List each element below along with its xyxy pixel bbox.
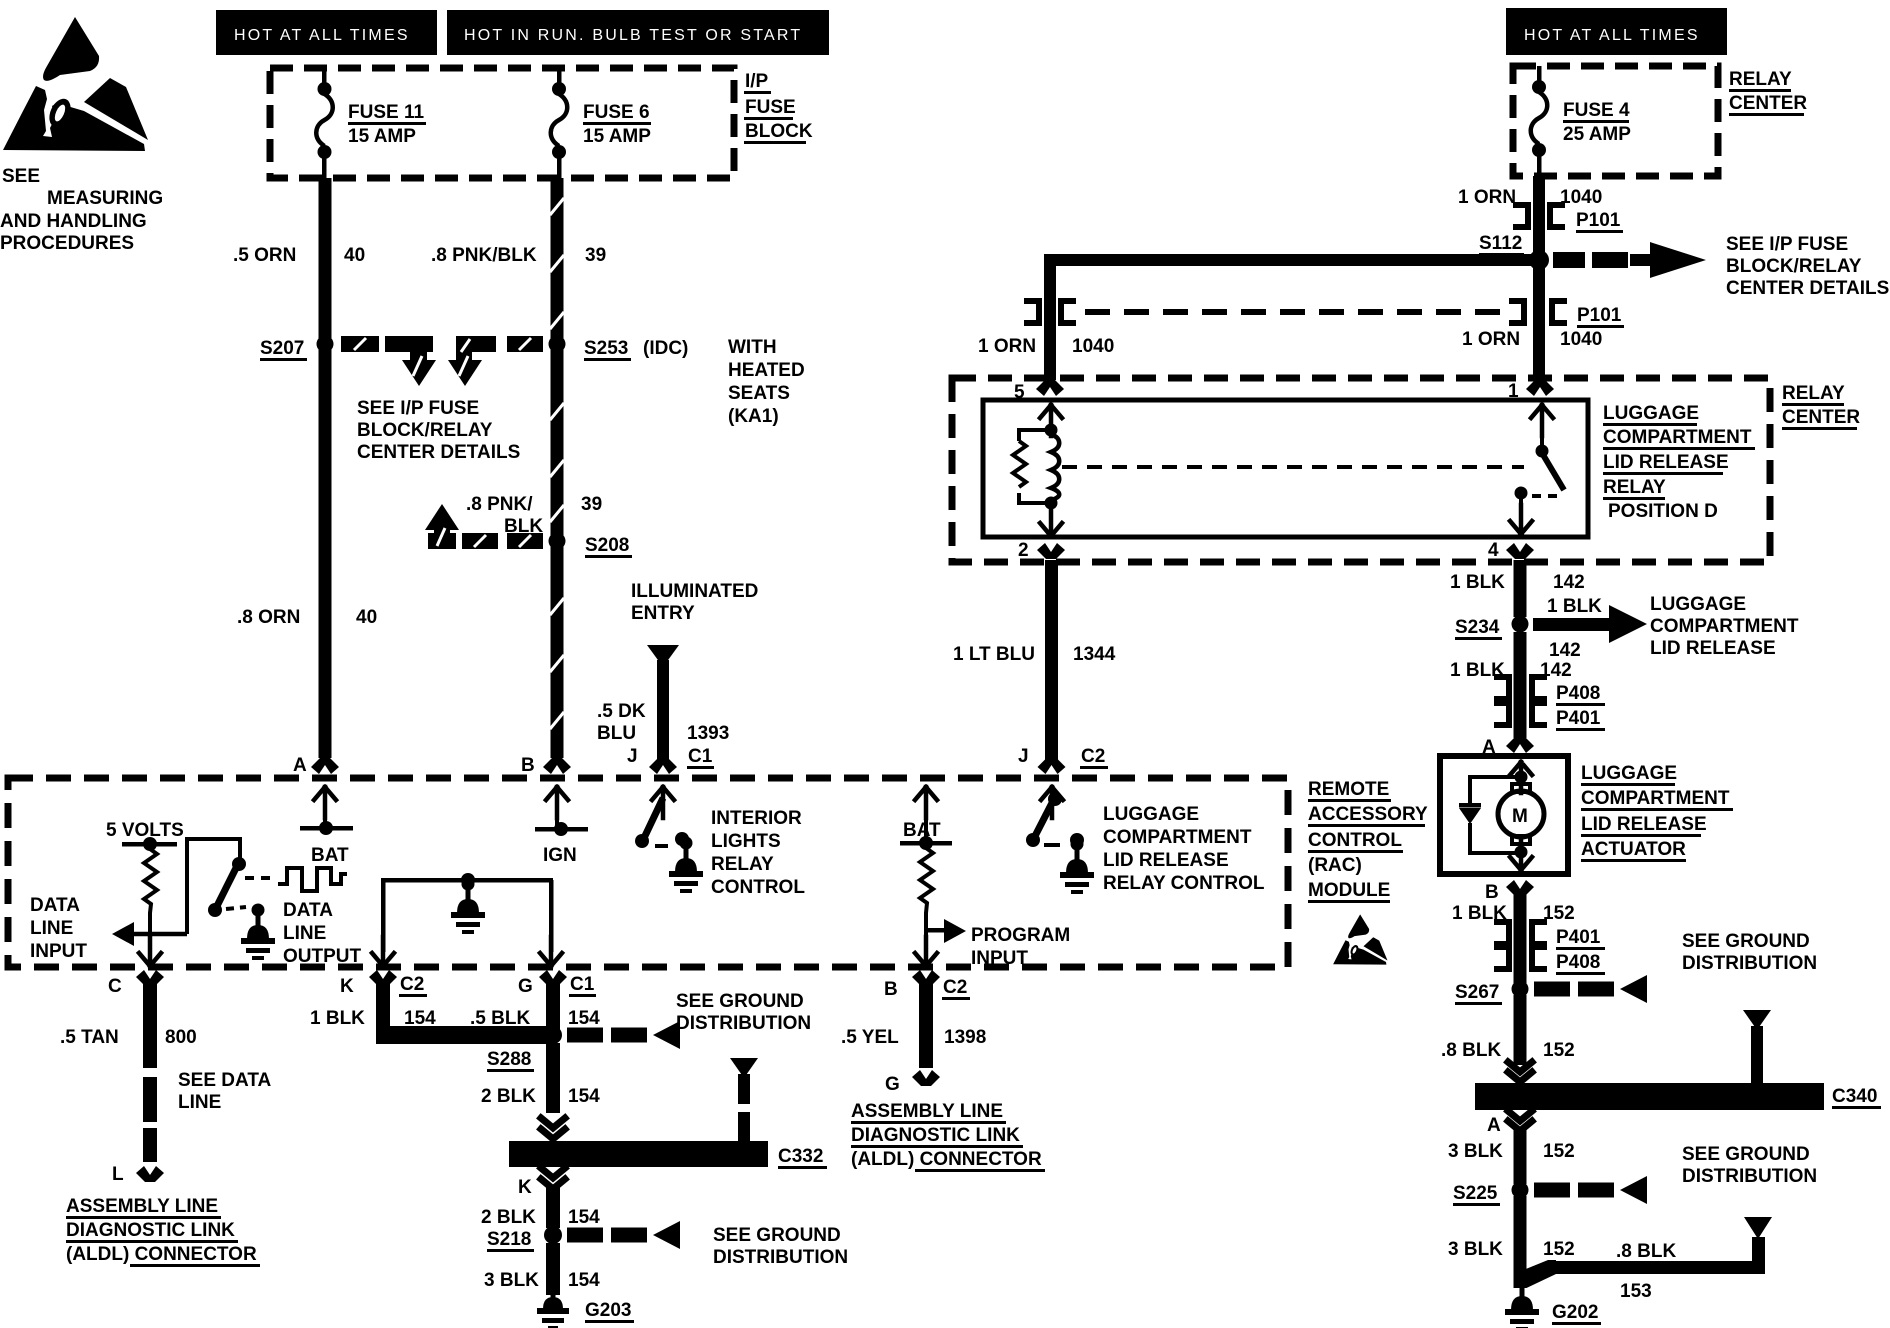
wire: .5 TAN 800 to ALDL pin L <box>143 982 157 1068</box>
svg-text:AND HANDLING: AND HANDLING <box>0 211 147 232</box>
svg-text:2: 2 <box>1018 540 1029 561</box>
svg-text:COMPARTMENT: COMPARTMENT <box>1650 616 1799 637</box>
svg-text:4: 4 <box>1488 540 1499 561</box>
label: I/P FUSE BLOCK <box>744 71 813 144</box>
svg-text:C1: C1 <box>570 974 595 995</box>
arrow: S267 to ground distribution <box>1534 975 1647 1003</box>
svg-text:.8 BLK: .8 BLK <box>1441 1040 1501 1061</box>
svg-text:G: G <box>885 1074 900 1095</box>
splice S253 <box>549 336 566 353</box>
svg-text:REMOTE: REMOTE <box>1308 779 1389 800</box>
svg-text:154: 154 <box>568 1270 600 1291</box>
svg-text:3 BLK: 3 BLK <box>1448 1239 1503 1260</box>
wire: .8 BLK 153 branch to trunk ground <box>1514 1260 1557 1288</box>
svg-text:5: 5 <box>1014 382 1025 403</box>
svg-text:39: 39 <box>585 245 606 266</box>
svg-text:S288: S288 <box>487 1049 531 1070</box>
wire: circuit 1040 from FUSE 4 to relay pin 1 <box>1533 176 1545 380</box>
svg-text:154: 154 <box>568 1086 600 1107</box>
svg-text:DATA: DATA <box>30 895 80 916</box>
svg-text:B: B <box>884 979 898 1000</box>
svg-text:SEE GROUND: SEE GROUND <box>676 991 804 1012</box>
splice S208 <box>549 533 566 550</box>
svg-text:154: 154 <box>568 1008 600 1029</box>
svg-text:152: 152 <box>1543 1141 1575 1162</box>
connector C340 (bulkhead bar) <box>1475 1083 1824 1110</box>
note: LUGGAGE COMPARTMENT LID RELEASE <box>1650 594 1799 659</box>
connector C332 (bar) <box>509 1141 768 1167</box>
svg-text:25 AMP: 25 AMP <box>1563 124 1631 145</box>
svg-text:C340: C340 <box>1832 1086 1877 1107</box>
svg-text:153: 153 <box>1620 1281 1652 1302</box>
svg-text:C1: C1 <box>688 746 713 767</box>
diode D1 <box>1470 777 1521 853</box>
note: WITH HEATED SEATS (KA1) <box>728 337 805 427</box>
svg-text:G202: G202 <box>1552 1302 1598 1323</box>
svg-text:G203: G203 <box>585 1300 631 1321</box>
svg-text:BLOCK: BLOCK <box>745 121 813 142</box>
svg-text:S207: S207 <box>260 338 304 359</box>
svg-text:CENTER: CENTER <box>1729 93 1807 114</box>
wire: illuminated entry drop to pin J/C1 <box>647 645 679 667</box>
svg-text:.5 DK: .5 DK <box>597 701 646 722</box>
wire: 1 BLK 142 from S234 to actuator pin A <box>1514 632 1527 738</box>
ground G203 <box>537 1291 569 1328</box>
svg-text:ASSEMBLY LINE: ASSEMBLY LINE <box>66 1196 218 1217</box>
svg-text:.5 YEL: .5 YEL <box>841 1027 899 1048</box>
svg-text:P101: P101 <box>1577 305 1622 326</box>
svg-text:LINE: LINE <box>283 923 326 944</box>
pin B female connector at RAC module <box>543 758 571 774</box>
svg-text:15 AMP: 15 AMP <box>348 126 416 147</box>
svg-text:S208: S208 <box>585 535 629 556</box>
svg-text:MODULE: MODULE <box>1308 880 1390 901</box>
wire: 2 BLK 154 from C332 to S218 <box>546 1186 560 1228</box>
svg-text:ILLUMINATED: ILLUMINATED <box>631 581 758 602</box>
relay center fuse box (dashed) <box>1513 66 1718 176</box>
svg-text:2 BLK: 2 BLK <box>481 1086 536 1107</box>
relay coil (pin 5 branch) <box>1040 405 1062 436</box>
svg-text:800: 800 <box>165 1027 197 1048</box>
pin A female connector at RAC module <box>311 758 339 774</box>
arrow: S253 to I/P fuse details (dashed, down) <box>448 336 543 386</box>
svg-text:LUGGAGE: LUGGAGE <box>1603 403 1699 424</box>
fuse F11 <box>322 68 327 84</box>
svg-text:M: M <box>1512 806 1528 827</box>
svg-text:HOT IN RUN. BULB TEST OR START: HOT IN RUN. BULB TEST OR START <box>464 27 802 44</box>
label: ASSEMBLY LINE DIAGNOSTIC LINK (ALDL) CONNECTOR <box>66 1196 260 1267</box>
svg-text:SEATS: SEATS <box>728 383 790 404</box>
svg-text:C2: C2 <box>400 974 424 995</box>
svg-text:5 VOLTS: 5 VOLTS <box>106 820 184 841</box>
svg-text:I/P: I/P <box>745 71 769 92</box>
svg-text:SEE I/P FUSE: SEE I/P FUSE <box>357 398 479 419</box>
svg-text:1 ORN: 1 ORN <box>978 336 1036 357</box>
svg-text:(ALDL) CONNECTOR: (ALDL) CONNECTOR <box>66 1244 257 1265</box>
svg-text:HEATED: HEATED <box>728 360 805 381</box>
svg-text:(RAC): (RAC) <box>1308 855 1362 876</box>
svg-text:L: L <box>112 1164 124 1185</box>
svg-text:LUGGAGE: LUGGAGE <box>1103 804 1199 825</box>
wire: .8 BLK 152 from S267 to C340 <box>1514 995 1527 1065</box>
svg-text:PROCEDURES: PROCEDURES <box>0 233 134 254</box>
svg-text:FUSE 4: FUSE 4 <box>1563 100 1630 121</box>
wire: 3 BLK 152 from S225 to G202 <box>1514 1196 1527 1287</box>
label: INTERIOR LIGHTS RELAY CONTROL <box>711 808 805 898</box>
svg-text:MEASURING: MEASURING <box>47 188 163 209</box>
svg-text:J: J <box>1018 746 1029 767</box>
svg-text:BLOCK/RELAY: BLOCK/RELAY <box>1726 256 1862 277</box>
svg-text:RELAY: RELAY <box>711 854 774 875</box>
svg-text:DATA: DATA <box>283 900 333 921</box>
wire: 1 BLK 142 from relay pin 4 to S234 <box>1514 560 1527 617</box>
RAC internal: BAT terminal (pin A) <box>300 826 353 831</box>
RAC internal: pin C wire <box>148 936 152 952</box>
svg-text:CENTER: CENTER <box>1782 407 1860 428</box>
RAC internal: data line output waveform <box>245 876 276 880</box>
svg-text:1: 1 <box>1508 381 1519 402</box>
connector P408 (lower) <box>1494 947 1509 969</box>
svg-text:39: 39 <box>581 494 602 515</box>
svg-text:DISTRIBUTION: DISTRIBUTION <box>1682 1166 1817 1187</box>
svg-text:LID RELEASE: LID RELEASE <box>1581 814 1707 835</box>
svg-text:LINE: LINE <box>30 918 73 939</box>
wire: branch into C332 from above <box>730 1058 758 1078</box>
RAC internal: IGN terminal (pin B) <box>535 827 588 832</box>
RAC internal: interior lights relay control switch <box>652 787 674 818</box>
power label: HOT AT ALL TIMES <box>216 10 437 55</box>
svg-text:1 BLK: 1 BLK <box>1547 596 1602 617</box>
svg-text:S253: S253 <box>584 338 628 359</box>
connector P408 <box>1494 677 1509 699</box>
wire: heavy feed from S112 to relay pin 5 <box>1050 254 1539 266</box>
RAC internal: luggage compartment lid release relay control switch <box>1041 787 1063 818</box>
svg-text:P401: P401 <box>1556 927 1601 948</box>
splice S234 <box>1512 616 1529 633</box>
svg-text:K: K <box>518 1177 532 1198</box>
svg-text:G: G <box>518 976 533 997</box>
svg-text:142: 142 <box>1549 640 1581 661</box>
svg-text:IGN: IGN <box>543 845 577 866</box>
RAC internal: program input (pin B ALDL) <box>915 787 937 818</box>
actuator M1: luggage compartment lid release actuator <box>1440 756 1568 874</box>
arrow: S234 to luggage compartment lid release <box>1533 618 1613 631</box>
svg-text:P408: P408 <box>1556 683 1600 704</box>
svg-text:RELAY: RELAY <box>1729 69 1792 90</box>
arrow: S207 to I/P fuse details (dashed, down) <box>341 336 436 386</box>
I/P fuse block (dashed box) <box>270 68 734 178</box>
svg-text:INPUT: INPUT <box>30 941 87 962</box>
svg-text:RELAY CONTROL: RELAY CONTROL <box>1103 873 1265 894</box>
svg-text:LID RELEASE: LID RELEASE <box>1103 850 1229 871</box>
svg-text:CENTER DETAILS: CENTER DETAILS <box>1726 278 1889 299</box>
label: LUGGAGE COMPARTMENT LID RELEASE ACTUATOR <box>1581 763 1733 862</box>
wire to data-line switch <box>187 839 240 934</box>
svg-text:DISTRIBUTION: DISTRIBUTION <box>1682 953 1817 974</box>
svg-text:K: K <box>340 976 354 997</box>
wire: circuit 39 from FUSE 6 to RAC pin B (with current-path hatching) <box>551 178 564 758</box>
svg-text:SEE: SEE <box>2 166 40 187</box>
wire: 1 LT BLU 1344 from relay pin 2 to RAC pin J/C2 <box>1045 560 1058 760</box>
fuse F6 <box>557 68 562 84</box>
svg-text:1040: 1040 <box>1560 329 1602 350</box>
RAC internal: data line output switch <box>232 857 246 871</box>
svg-text:LID RELEASE: LID RELEASE <box>1603 452 1729 473</box>
label: DATA LINE OUTPUT <box>283 900 362 967</box>
svg-text:A: A <box>293 755 307 776</box>
svg-text:1 BLK: 1 BLK <box>310 1008 365 1029</box>
svg-text:SEE GROUND: SEE GROUND <box>1682 1144 1810 1165</box>
relay U1: luggage compartment lid release relay (solid box) <box>983 400 1588 537</box>
svg-text:152: 152 <box>1543 1040 1575 1061</box>
svg-text:BLOCK/RELAY: BLOCK/RELAY <box>357 420 493 441</box>
svg-text:LIGHTS: LIGHTS <box>711 831 781 852</box>
note: SEE I/P FUSE BLOCK/RELAY CENTER DETAILS (right) <box>1726 234 1889 299</box>
svg-text:.8 PNK/BLK: .8 PNK/BLK <box>431 245 537 266</box>
svg-text:.8 BLK: .8 BLK <box>1616 1241 1676 1262</box>
svg-text:HOT AT ALL TIMES: HOT AT ALL TIMES <box>1524 27 1700 44</box>
svg-text:ACCESSORY: ACCESSORY <box>1308 804 1428 825</box>
svg-text:CENTER DETAILS: CENTER DETAILS <box>357 442 520 463</box>
svg-text:152: 152 <box>1543 903 1575 924</box>
motor M <box>1512 784 1530 792</box>
wire: .5 BLK 154 from pin G to S288 <box>546 982 560 1034</box>
arrow: S112 to I/P fuse block details <box>1553 242 1706 278</box>
ESD warning symbol <box>3 17 148 151</box>
svg-text:S218: S218 <box>487 1229 531 1250</box>
svg-text:J: J <box>627 746 638 767</box>
power label: HOT AT ALL TIMES (right) <box>1506 8 1727 55</box>
svg-text:15 AMP: 15 AMP <box>583 126 651 147</box>
svg-text:1040: 1040 <box>1072 336 1114 357</box>
svg-text:INTERIOR: INTERIOR <box>711 808 802 829</box>
connector P401 <box>1494 703 1509 725</box>
label: DATA LINE INPUT <box>30 895 87 962</box>
splice S218 <box>544 1226 562 1244</box>
connector P101 (lower, on dashed inter-connect) <box>1509 301 1524 323</box>
wire: .5 YEL 1398 from pin B to ALDL pin G <box>919 982 933 1068</box>
svg-text:.5 ORN: .5 ORN <box>233 245 296 266</box>
label: REMOTE ACCESSORY CONTROL (RAC) MODULE <box>1308 779 1428 903</box>
svg-text:FUSE 6: FUSE 6 <box>583 102 650 123</box>
fuse F4 <box>1537 66 1542 82</box>
wire: 3 BLK 154 from S218 to G203 <box>546 1243 560 1295</box>
ground G202 <box>1505 1286 1539 1328</box>
splice S288 <box>544 1026 562 1044</box>
svg-text:COMPARTMENT: COMPARTMENT <box>1581 788 1730 809</box>
RAC internal: pin A arrow <box>314 787 336 818</box>
svg-text:3 BLK: 3 BLK <box>1448 1141 1503 1162</box>
svg-text:ENTRY: ENTRY <box>631 603 695 624</box>
arrow: S208 to I/P fuse details (dashed, up) <box>425 504 543 549</box>
svg-text:(ALDL) CONNECTOR: (ALDL) CONNECTOR <box>851 1149 1042 1170</box>
svg-text:.8 PNK/: .8 PNK/ <box>466 494 533 515</box>
svg-text:40: 40 <box>356 607 377 628</box>
svg-text:LUGGAGE: LUGGAGE <box>1650 594 1746 615</box>
svg-text:SEE GROUND: SEE GROUND <box>713 1225 841 1246</box>
svg-text:.5 TAN: .5 TAN <box>60 1027 119 1048</box>
svg-text:1 ORN: 1 ORN <box>1458 187 1516 208</box>
RAC internal: pin B arrow <box>546 787 568 818</box>
svg-text:ASSEMBLY LINE: ASSEMBLY LINE <box>851 1101 1003 1122</box>
label: LUGGAGE COMPARTMENT LID RELEASE RELAY POSITION D <box>1603 403 1755 522</box>
RAC internal: data line input arrow <box>112 922 134 946</box>
svg-text:1398: 1398 <box>944 1027 986 1048</box>
svg-text:P101: P101 <box>1576 210 1621 231</box>
wire: circuit 40 from FUSE 11 to RAC pin A <box>319 178 332 758</box>
svg-text:S225: S225 <box>1453 1183 1498 1204</box>
svg-text:PROGRAM: PROGRAM <box>971 925 1070 946</box>
svg-text:142: 142 <box>1553 572 1585 593</box>
svg-text:C: C <box>108 976 122 997</box>
svg-text:3 BLK: 3 BLK <box>484 1270 539 1291</box>
svg-text:COMPARTMENT: COMPARTMENT <box>1103 827 1252 848</box>
wire: branch into C340 from above <box>1743 1010 1771 1030</box>
relay center (dashed box) <box>952 378 1770 562</box>
arrow: program input <box>926 928 944 933</box>
wire: 3 BLK 152 from C340 to S225 <box>1514 1128 1527 1184</box>
svg-text:OUTPUT: OUTPUT <box>283 946 362 967</box>
svg-text:B: B <box>1485 882 1499 903</box>
svg-text:C2: C2 <box>1081 746 1105 767</box>
svg-text:LINE: LINE <box>178 1092 221 1113</box>
svg-text:FUSE: FUSE <box>745 97 796 118</box>
note: SEE MEASURING AND HANDLING PROCEDURES <box>0 166 163 254</box>
svg-text:BAT: BAT <box>311 845 349 866</box>
wire: 1 BLK 152 from actuator pin B to S267 <box>1514 890 1527 984</box>
splice S225 <box>1512 1182 1529 1199</box>
note: SEE I/P FUSE BLOCK/RELAY CENTER DETAILS <box>357 398 520 463</box>
relay internal dashed link <box>1062 465 1524 469</box>
svg-text:SEE I/P FUSE: SEE I/P FUSE <box>1726 234 1848 255</box>
arrow: S288 to ground distribution <box>567 1021 680 1049</box>
svg-text:(KA1): (KA1) <box>728 406 779 427</box>
svg-text:DISTRIBUTION: DISTRIBUTION <box>713 1247 848 1268</box>
connector P101 (upper) <box>1513 205 1528 227</box>
svg-text:1 LT BLU: 1 LT BLU <box>953 644 1035 665</box>
svg-text:1 BLK: 1 BLK <box>1450 572 1505 593</box>
svg-text:DIAGNOSTIC LINK: DIAGNOSTIC LINK <box>66 1220 235 1241</box>
svg-text:P401: P401 <box>1556 708 1601 729</box>
label: ASSEMBLY LINE DIAGNOSTIC LINK (ALDL) CONNECTOR (right) <box>851 1101 1045 1172</box>
svg-text:POSITION D: POSITION D <box>1608 501 1718 522</box>
svg-text:FUSE 11: FUSE 11 <box>348 102 424 123</box>
splice S207 <box>317 336 334 353</box>
svg-text:LID RELEASE: LID RELEASE <box>1650 638 1776 659</box>
wire: 2 BLK 154 from S288 to C332 <box>546 1043 560 1113</box>
svg-text:RELAY: RELAY <box>1782 383 1845 404</box>
wire: dashed harness line between P101 halves <box>1085 309 1505 315</box>
svg-text:RELAY: RELAY <box>1603 477 1666 498</box>
svg-text:C2: C2 <box>943 977 967 998</box>
svg-text:.8 ORN: .8 ORN <box>237 607 300 628</box>
svg-text:CONTROL: CONTROL <box>711 877 805 898</box>
svg-text:B: B <box>521 755 535 776</box>
svg-text:1040: 1040 <box>1560 187 1602 208</box>
connector joint at C332 (top) <box>541 1118 565 1128</box>
svg-text:HOT AT ALL TIMES: HOT AT ALL TIMES <box>234 27 410 44</box>
svg-text:S112: S112 <box>1479 233 1522 254</box>
arrow: S225 to ground distribution <box>1534 1176 1647 1204</box>
svg-text:CONTROL: CONTROL <box>1308 830 1402 851</box>
svg-text:WITH: WITH <box>728 337 777 358</box>
arrow: S218 to ground distribution <box>567 1221 680 1249</box>
svg-text:S267: S267 <box>1455 982 1499 1003</box>
svg-text:INPUT: INPUT <box>971 948 1028 969</box>
connector P401 (lower) <box>1494 922 1509 944</box>
svg-text:A: A <box>1487 1115 1501 1136</box>
RAC internal: ground branch to pins K and G <box>381 878 553 883</box>
svg-text:(IDC): (IDC) <box>643 338 688 359</box>
svg-text:DISTRIBUTION: DISTRIBUTION <box>676 1013 811 1034</box>
svg-text:1 ORN: 1 ORN <box>1462 329 1520 350</box>
ESD warning symbol (small) <box>1333 914 1387 964</box>
svg-text:COMPARTMENT: COMPARTMENT <box>1603 427 1752 448</box>
svg-text:DIAGNOSTIC LINK: DIAGNOSTIC LINK <box>851 1125 1020 1146</box>
svg-text:154: 154 <box>404 1008 436 1029</box>
svg-text:1344: 1344 <box>1073 644 1116 665</box>
svg-text:.5 BLK: .5 BLK <box>470 1008 530 1029</box>
wire: 1 BLK 154 from pin K to S288 <box>376 982 390 1030</box>
RAC module (dashed box) <box>8 778 1288 967</box>
connector joint at C340 (top) <box>1508 1062 1532 1072</box>
svg-text:P408: P408 <box>1556 952 1600 973</box>
svg-text:152: 152 <box>1543 1239 1575 1260</box>
svg-text:BLU: BLU <box>597 723 636 744</box>
power label: HOT IN RUN, BULB TEST OR START <box>447 10 829 55</box>
svg-text:1393: 1393 <box>687 723 729 744</box>
svg-text:SEE DATA: SEE DATA <box>178 1070 272 1091</box>
label: LUGGAGE COMPARTMENT LID RELEASE RELAY CONTROL <box>1103 804 1265 894</box>
svg-text:S234: S234 <box>1455 617 1500 638</box>
svg-text:2 BLK: 2 BLK <box>481 1207 536 1228</box>
svg-text:LUGGAGE: LUGGAGE <box>1581 763 1677 784</box>
relay switch (pins 1-4) <box>1531 405 1553 436</box>
svg-text:40: 40 <box>344 245 365 266</box>
svg-text:ACTUATOR: ACTUATOR <box>1581 839 1686 860</box>
svg-text:154: 154 <box>568 1207 600 1228</box>
svg-text:SEE GROUND: SEE GROUND <box>1682 931 1810 952</box>
svg-text:C332: C332 <box>778 1146 823 1167</box>
splice S267 <box>1512 981 1529 998</box>
